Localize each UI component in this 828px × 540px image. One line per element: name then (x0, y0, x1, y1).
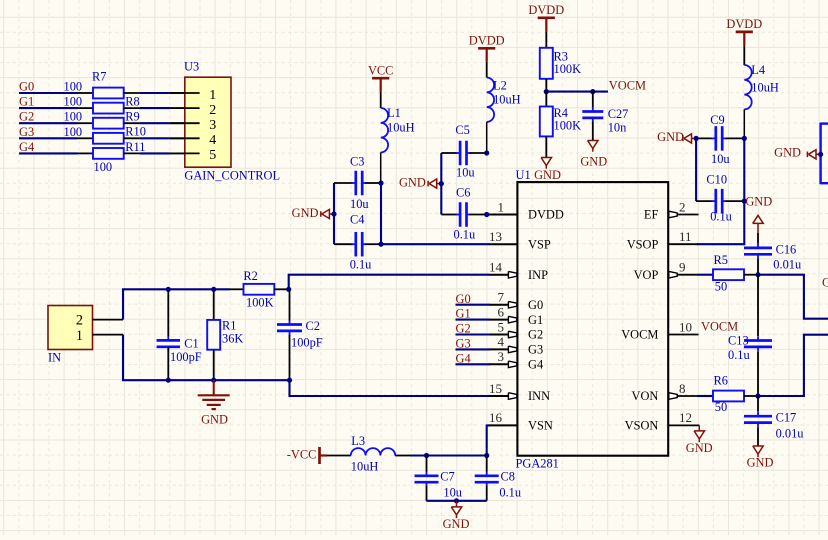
junction C8/VSN (484, 453, 489, 458)
junction bottom rail GND (454, 498, 459, 503)
junction GND/C9 left (694, 136, 699, 141)
ground GND arrow (C3/C4 rail) (292, 206, 334, 220)
inductor L2 10uH (487, 78, 521, 122)
svg-text:R5: R5 (714, 253, 728, 267)
net label VOCM (pin 10) (701, 320, 738, 334)
resistor R1 36K (207, 289, 243, 380)
U1 pin 15 (INN) stub (489, 393, 517, 400)
svg-text:R1: R1 (222, 319, 236, 333)
svg-text:R9: R9 (125, 110, 139, 124)
svg-text:G0: G0 (528, 298, 543, 312)
ground GND (C16 top) (745, 194, 772, 233)
wire VOP to right edge (758, 275, 828, 319)
svg-text:1: 1 (498, 199, 505, 214)
svg-text:VOCM: VOCM (609, 79, 646, 93)
resistor R5 50 (697, 253, 758, 294)
resistor R8 100 (64, 95, 140, 114)
svg-text:2: 2 (76, 313, 83, 329)
svg-text:100K: 100K (554, 119, 582, 133)
svg-text:INP: INP (528, 268, 548, 282)
junction R1 top (211, 287, 216, 292)
inductor L1 10uH (381, 106, 415, 152)
svg-text:C27: C27 (608, 107, 629, 121)
connector IN (48, 306, 93, 365)
resistor R11 100 (78, 140, 146, 174)
ground GND arrow (C9) (657, 130, 696, 144)
svg-text:C1: C1 (184, 337, 198, 351)
svg-text:100: 100 (64, 110, 83, 124)
junction C4/VSP (378, 242, 383, 247)
svg-text:9: 9 (679, 260, 686, 275)
svg-text:R8: R8 (125, 95, 139, 109)
ground GND earth (input filter) (198, 380, 230, 426)
svg-text:100: 100 (64, 80, 83, 94)
svg-text:4: 4 (498, 334, 505, 349)
wire R9 to U3 pin 3 (140, 122, 170, 124)
svg-text:L3: L3 (351, 434, 365, 448)
ground GND (C27) (580, 141, 607, 169)
svg-text:G2: G2 (528, 328, 543, 342)
svg-text:GND: GND (745, 194, 772, 208)
svg-text:C4: C4 (350, 213, 364, 227)
svg-text:DVDD: DVDD (469, 33, 505, 47)
capacitor C16 0.01u (744, 233, 801, 275)
power DVDD (L2) (469, 33, 505, 77)
wire G1 to R8 (19, 107, 78, 109)
U1 pin 12 (VSON) stub (668, 424, 699, 426)
net label G3 (19, 125, 34, 139)
svg-text:0.01u: 0.01u (776, 426, 804, 440)
svg-text:1: 1 (209, 88, 216, 103)
junction GND on C5 rail (439, 181, 444, 186)
capacitor C10 0.1u (696, 173, 744, 224)
svg-text:C3: C3 (350, 154, 364, 168)
svg-text:VSP: VSP (528, 237, 551, 251)
wire C6 to U1 DVDD (487, 213, 490, 215)
wire C5-C6 left rail (440, 153, 442, 215)
junction C6/DVDD pin1 (484, 212, 489, 217)
U1 pin 10 (VOCM) stub (668, 334, 698, 336)
power -VCC (287, 447, 327, 464)
svg-text:U1: U1 (516, 168, 531, 182)
svg-text:G4: G4 (19, 140, 34, 154)
svg-text:EF: EF (644, 208, 659, 222)
svg-text:GND: GND (747, 456, 774, 470)
svg-text:5: 5 (209, 148, 216, 163)
svg-text:IN: IN (48, 350, 61, 364)
svg-text:12: 12 (679, 410, 692, 425)
junction L2/C5 (484, 150, 489, 155)
U1 pin 1 (DVDD) stub (489, 214, 517, 216)
capacitor C3 10u (334, 154, 381, 211)
wire IN pin2 up to top rail (123, 289, 230, 319)
svg-text:100pF: 100pF (170, 350, 202, 364)
U3 pin 4 stub (170, 137, 200, 139)
junction GND on rail (331, 211, 336, 216)
svg-text:10uH: 10uH (751, 80, 779, 94)
wire L4 to C9 (743, 109, 745, 138)
junction C27 tap (590, 89, 595, 94)
wire L1 column C3 to C4 (380, 183, 382, 244)
svg-text:G3: G3 (528, 343, 543, 357)
svg-text:7: 7 (498, 290, 505, 305)
svg-text:10uH: 10uH (387, 120, 415, 134)
ground GND arrow (right edge) (774, 146, 820, 160)
power VCC (368, 63, 393, 108)
U1 pin 16 (VSN) stub (489, 424, 517, 426)
svg-text:0.01u: 0.01u (773, 258, 801, 272)
svg-text:G0: G0 (19, 80, 34, 94)
svg-text:DVDD: DVDD (528, 208, 564, 222)
wire R8 to U3 pin 2 (140, 107, 170, 109)
svg-text:GND: GND (580, 155, 607, 169)
junction R3/R4 (544, 89, 549, 94)
svg-text:0.1u: 0.1u (728, 348, 750, 362)
U1 pin 14 (INP) stub (489, 271, 517, 278)
wire C3-C4 left rail (333, 183, 335, 244)
svg-text:G: G (822, 276, 828, 290)
junction C10/VSOP (742, 199, 747, 204)
capacitor C17 0.01u (744, 396, 803, 446)
svg-text:GND: GND (292, 206, 319, 220)
svg-text:INN: INN (528, 389, 550, 403)
inductor L4 10uH (744, 63, 779, 109)
ground GND (C17) (747, 446, 774, 470)
capacitor C5 10u (441, 123, 486, 180)
svg-text:GND: GND (534, 168, 561, 182)
junction R2/C2/INP node (286, 287, 291, 292)
svg-text:DVDD: DVDD (528, 3, 564, 17)
capacitor C4 0.1u (334, 213, 381, 272)
U3 pin 3 stub (170, 122, 200, 124)
svg-text:GND: GND (399, 176, 426, 190)
capacitor C27 10n (582, 92, 628, 141)
resistor R10 100 (64, 125, 146, 144)
wire VON to right edge (758, 335, 828, 396)
svg-text:10u: 10u (350, 197, 369, 211)
svg-text:C10: C10 (706, 173, 727, 187)
net label G1 (U1) (456, 307, 471, 321)
wire up to VSN (487, 425, 490, 455)
svg-text:R7: R7 (92, 70, 106, 84)
svg-text:100: 100 (64, 125, 83, 139)
wire C7-C8 bottom rail (427, 500, 487, 502)
U1 pin 4 (G3) stub (489, 346, 517, 353)
svg-text:C16: C16 (776, 242, 797, 256)
junction C1 top (166, 287, 171, 292)
junction C1 bottom (166, 378, 171, 383)
svg-text:G1: G1 (528, 313, 543, 327)
wire G4 to U1 (456, 363, 491, 365)
svg-text:G4: G4 (528, 358, 543, 372)
svg-text:16: 16 (489, 410, 503, 425)
svg-text:C9: C9 (710, 113, 724, 127)
svg-text:10uH: 10uH (493, 92, 521, 106)
capacitor C7 10u (415, 456, 462, 501)
resistor R3 100K (540, 48, 581, 92)
resistor R7 100 (64, 70, 140, 99)
net label G1 (19, 95, 34, 109)
net label G3 (U1) (456, 337, 471, 351)
junction GND right edge (818, 152, 823, 157)
svg-text:15: 15 (489, 381, 502, 396)
junction L1/C3 (378, 180, 383, 185)
svg-text:0.1u: 0.1u (350, 258, 372, 272)
svg-text:100K: 100K (554, 62, 582, 76)
capacitor C9 10u (696, 113, 744, 166)
ground GND arrow (C5/C6 rail) (399, 176, 441, 190)
svg-text:U3: U3 (184, 60, 199, 74)
inductor L3 10uH (351, 434, 395, 473)
wire R11 to U3 pin 5 (140, 152, 170, 154)
svg-text:5: 5 (498, 319, 505, 334)
svg-text:L1: L1 (387, 106, 401, 120)
svg-text:GND: GND (201, 413, 228, 427)
wire VSP to U1 (381, 243, 490, 245)
capacitor C2 100pF (277, 289, 323, 380)
junction R6/C13/C17 (755, 393, 760, 398)
svg-text:14: 14 (489, 260, 503, 275)
wire bottom rail to INN (290, 380, 490, 396)
net label G0 (19, 80, 34, 94)
svg-text:100K: 100K (246, 296, 274, 310)
svg-text:C8: C8 (501, 470, 515, 484)
svg-text:10: 10 (679, 319, 692, 334)
svg-text:3: 3 (498, 349, 505, 364)
IN pin 1 stub (93, 334, 124, 336)
wire R10 to U3 pin 4 (140, 137, 170, 139)
svg-text:6: 6 (498, 304, 505, 319)
svg-text:C6: C6 (456, 186, 470, 200)
net label G2 (U1) (456, 322, 471, 336)
resistor R4 100K (540, 92, 581, 158)
op-amp U1 PGA281 (489, 168, 692, 470)
U1 pin 2 (EF) stub (668, 211, 698, 218)
svg-text:C13: C13 (728, 334, 749, 348)
svg-text:1: 1 (76, 328, 83, 344)
svg-text:VOP: VOP (634, 268, 659, 282)
svg-text:50: 50 (715, 400, 727, 414)
wire L3 to C7/C8 (410, 454, 487, 456)
svg-text:PGA281: PGA281 (516, 457, 559, 471)
svg-text:10u: 10u (711, 152, 730, 166)
svg-text:36K: 36K (222, 332, 243, 346)
svg-text:50: 50 (715, 280, 727, 294)
svg-text:100: 100 (64, 95, 83, 109)
svg-text:GND: GND (657, 130, 684, 144)
wire G2 to R9 (19, 122, 78, 124)
net label G0 (U1) (456, 292, 471, 306)
net label G2 (19, 110, 34, 124)
wire G3 to U1 (456, 348, 491, 350)
svg-text:L4: L4 (751, 63, 765, 77)
U1 pin 3 (G4) stub (489, 361, 517, 368)
net label G4 (U1) (456, 351, 471, 365)
wire G0 to R7 (19, 92, 78, 94)
wire R2 junction up to INP (289, 275, 490, 290)
svg-text:C7: C7 (440, 470, 454, 484)
junction C2 bottom / INN node (287, 378, 292, 383)
svg-text:R6: R6 (714, 374, 728, 388)
wire C9-C10 left rail (695, 138, 697, 201)
svg-text:0.1u: 0.1u (710, 210, 732, 224)
svg-text:100: 100 (94, 160, 113, 174)
wire IN pin1 down to bottom rail (123, 335, 289, 381)
resistor R9 100 (64, 110, 140, 129)
connector U3 GAIN_CONTROL (170, 60, 280, 183)
svg-text:100pF: 100pF (291, 336, 323, 350)
U1 pin 6 (G1) stub (489, 316, 517, 323)
ground GND (R4) (534, 158, 561, 182)
svg-text:0.1u: 0.1u (499, 486, 521, 500)
wire L2 to C5 junction (486, 122, 488, 153)
resistor R6 50 (697, 374, 758, 415)
svg-text:C17: C17 (776, 410, 797, 424)
lead -VCC to L3 (327, 455, 351, 457)
ground GND (VSON) (686, 425, 713, 455)
svg-text:10u: 10u (456, 166, 475, 180)
wire G4 to R11 (19, 152, 78, 154)
net label G (partial, right edge) (822, 276, 828, 290)
capacitor C8 0.1u (475, 456, 521, 501)
svg-text:VON: VON (632, 389, 659, 403)
svg-text:2: 2 (679, 199, 686, 214)
U1 pin 9 (VOP) stub (668, 271, 697, 278)
U3 pin 1 stub (170, 92, 200, 94)
svg-text:3: 3 (209, 118, 216, 133)
svg-text:GND: GND (686, 441, 713, 455)
svg-text:G2: G2 (19, 110, 34, 124)
U3 pin 5 stub (170, 152, 200, 154)
svg-text:C5: C5 (455, 123, 469, 137)
junction L3/C7 (424, 453, 429, 458)
IN pin 2 stub (93, 319, 124, 321)
net label G4 (19, 140, 34, 154)
svg-text:G3: G3 (19, 125, 34, 139)
svg-text:C2: C2 (306, 319, 320, 333)
svg-text:8: 8 (679, 381, 686, 396)
svg-text:VSOP: VSOP (627, 237, 659, 251)
net label VOCM (top) (609, 79, 646, 93)
partial component (right edge) (821, 123, 828, 185)
svg-text:4: 4 (209, 133, 216, 148)
svg-text:GND: GND (774, 146, 801, 160)
svg-text:L2: L2 (493, 79, 507, 93)
capacitor C1 100pF (157, 289, 202, 380)
U1 pin 13 (VSP) stub (489, 243, 517, 245)
svg-text:13: 13 (489, 229, 502, 244)
svg-text:10uH: 10uH (351, 460, 379, 474)
svg-text:VSN: VSN (528, 419, 553, 433)
lead L3 to wire (395, 455, 410, 457)
ground GND (C7/C8) (443, 501, 470, 531)
svg-text:10u: 10u (443, 486, 462, 500)
svg-text:R2: R2 (243, 269, 257, 283)
U1 pin 5 (G2) stub (489, 331, 517, 338)
svg-text:VOCM: VOCM (701, 320, 738, 334)
wire G3 to R10 (19, 137, 78, 139)
svg-text:2: 2 (209, 103, 216, 118)
svg-text:VSON: VSON (625, 419, 659, 433)
capacitor C6 0.1u (441, 186, 486, 242)
svg-text:DVDD: DVDD (726, 17, 762, 31)
wire G1 to U1 (456, 319, 491, 321)
power DVDD (L4) (726, 17, 762, 65)
svg-text:VOCM: VOCM (621, 328, 658, 342)
junction L4/C9 (742, 136, 747, 141)
svg-text:R10: R10 (125, 125, 146, 139)
svg-text:GND: GND (443, 517, 470, 531)
U3 pin 2 stub (170, 107, 200, 109)
svg-text:0.1u: 0.1u (454, 227, 476, 241)
svg-text:-VCC: -VCC (287, 447, 317, 461)
svg-text:G1: G1 (19, 95, 34, 109)
resistor R2 100K (230, 269, 289, 310)
svg-text:R11: R11 (125, 140, 145, 154)
junction R1 bottom (211, 378, 216, 383)
U1 pin 11 (VSOP) stub (668, 243, 698, 245)
wire VOCM node (546, 91, 608, 93)
wire G0 to U1 (456, 304, 491, 306)
svg-text:11: 11 (679, 229, 692, 244)
wire VSOP down and left to U1 (697, 201, 744, 244)
wire R7 to U3 pin 1 (140, 92, 170, 94)
wire C9 junction down to VSOP (743, 138, 745, 201)
svg-text:GAIN_CONTROL: GAIN_CONTROL (184, 169, 280, 183)
junction R5/C16/C13 (755, 272, 760, 277)
svg-text:VCC: VCC (368, 63, 393, 77)
svg-text:10n: 10n (608, 121, 627, 135)
U1 pin 7 (G0) stub (489, 301, 517, 308)
capacitor C13 0.1u (728, 275, 772, 396)
U1 pin 8 (VON) stub (668, 393, 697, 400)
power DVDD (R3) (528, 3, 564, 48)
wire L1 to C3 junction (380, 152, 382, 183)
wire G2 to U1 (456, 333, 491, 335)
